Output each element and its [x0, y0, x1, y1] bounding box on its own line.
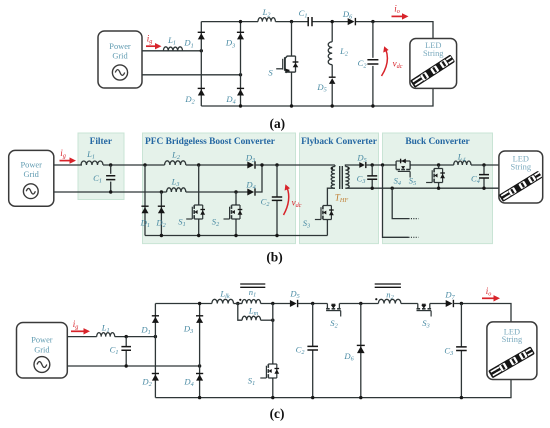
node: S bottom (a) [290, 104, 293, 107]
svg-text:Grid: Grid [24, 170, 40, 179]
MOSFET S2 (b) [235, 192, 237, 205]
node: C2 bottom (b) [275, 234, 278, 237]
diode D2 branch (b) [160, 192, 162, 236]
diode D2 (c) [152, 373, 159, 375]
wire: bottom rail (a) [201, 88, 433, 106]
inductor L2 vertical (a) [328, 42, 332, 65]
wire: grid bottom lead (c) [67, 365, 199, 367]
diode D7 (c) [452, 300, 454, 307]
node: C1 bottom (c) [125, 364, 128, 367]
wire: L3 to D4 (b) [186, 191, 248, 193]
wire: grid top lead (b) [54, 164, 82, 166]
node: C2 top (c) [311, 302, 314, 305]
LED String load (a) [410, 39, 457, 89]
wire: grid top lead to bridge (a) [142, 50, 201, 52]
diode D1 (c) [152, 315, 159, 317]
node: right leg bottom (c) [198, 396, 201, 399]
node: C3 top (b) [371, 163, 374, 166]
wire: D5 to bottom rail (a) [331, 84, 333, 107]
inductor L2 top rail (a) [258, 18, 275, 22]
shaded region: Filter block (b) [78, 133, 124, 200]
transformer n2 core (c) [375, 284, 401, 287]
MOSFET S1 (b) [198, 165, 200, 205]
MOSFET S2 (c) [327, 304, 339, 309]
inductor L2 (b) [165, 161, 186, 165]
node: S5 drain (b) [437, 163, 440, 166]
node: D1 top junction (b) [143, 163, 146, 166]
node: S5 source (b) [437, 187, 440, 190]
capacitor C1 (b) [110, 165, 112, 174]
node: S1 drain junction (b) [197, 163, 200, 166]
diode D2 (a) [198, 87, 205, 89]
wire: D5 to S2 (c) [298, 303, 328, 305]
node: bridge left mid junction (a) [200, 49, 203, 52]
wire: S1 drain branch (c) [272, 304, 274, 365]
transformer polarity dots (b) [331, 167, 333, 169]
wire: bottom rail (c) [155, 380, 511, 398]
LED String load (c) [487, 322, 537, 380]
shaded region: Buck Converter block (b) [383, 133, 493, 244]
node: C4 bottom (b) [482, 187, 485, 190]
switch S IGBT (a) [291, 22, 293, 57]
node: S1 bottom (c) [271, 396, 274, 399]
node: n1 right junction (c) [271, 302, 274, 305]
svg-text:String: String [511, 163, 532, 172]
MOSFET S1 (c) [260, 363, 279, 379]
capacitor C2 (b) [276, 165, 278, 197]
wire: secondary bottom rail (b) [345, 187, 499, 189]
inductor L1 (b) [81, 161, 103, 165]
node: right leg top (c) [198, 302, 201, 305]
MOSFET S5 (b) [438, 165, 440, 169]
diode D3 (a) [237, 31, 244, 33]
LED String load (b) [499, 151, 543, 203]
wire: L2 to D5 (a) [331, 65, 333, 78]
node: C2 top (b) [275, 163, 278, 166]
capacitor C4 (b) [483, 165, 485, 175]
wire: L2 vertical branch (a) [331, 22, 333, 42]
wire: bridge right leg (a) [240, 22, 242, 106]
inductor L3 (b) [167, 188, 186, 192]
wire: bottom rail (b) [145, 235, 327, 237]
node: C2 bottom (a) [371, 104, 374, 107]
diode D4 (b) [254, 188, 256, 195]
inductor L1 (a) [163, 47, 182, 51]
diode D3 (b) [254, 161, 256, 168]
diode D1 branch (b) [144, 165, 146, 236]
capacitor C2 (c) [312, 304, 314, 347]
node: Lm right junction (c) [271, 319, 274, 322]
node: switch S junction (a) [290, 20, 293, 23]
node: right leg bottom (a) [239, 104, 242, 107]
svg-text:String: String [502, 335, 523, 344]
node: bridge right mid junction (c) [198, 364, 201, 367]
wire: grid bottom lead (a) [142, 74, 241, 76]
wire: S3 to D7 (c) [430, 303, 446, 305]
node: C3 bottom (b) [371, 187, 374, 190]
svg-text:S: S [268, 68, 273, 78]
capacitor C3 (c) [460, 304, 462, 347]
diode D4 (c) [196, 373, 203, 375]
node: stub A top (b) [381, 163, 384, 166]
node: D6 top junction (c) [359, 302, 362, 305]
transformer n1 primary coil (c) [234, 303, 243, 305]
wire: top rail bridge to Llk (c) [155, 303, 212, 305]
node: stub B top (b) [391, 187, 394, 190]
diode D5 (b) [365, 162, 367, 168]
wire: D5 to buck top (b) [366, 164, 396, 166]
svg-text:Power: Power [20, 161, 42, 170]
diode D4 (a) [237, 87, 244, 89]
capacitor C3 (b) [371, 165, 373, 176]
voltage arrow v_dc (b) [284, 188, 289, 216]
svg-text:Power: Power [109, 42, 131, 51]
node: S2 source bottom (b) [234, 234, 237, 237]
power grid source (c) [17, 323, 68, 379]
inductor L4 (b) [454, 161, 471, 165]
capacitor C1 (c) [125, 337, 127, 347]
inductor Llk (c) [212, 299, 234, 303]
diode D6 branch (c) [360, 304, 362, 398]
capacitor C1 series (a) [308, 17, 312, 26]
svg-text:Flyback Converter: Flyback Converter [301, 137, 377, 147]
transformer THF core (b) [340, 166, 343, 189]
voltage arrow v_dc (a) [382, 50, 388, 77]
wire: n2 to S3 (c) [401, 303, 418, 305]
node: D5 bottom (a) [331, 104, 334, 107]
wire: S emitter to bottom rail (a) [291, 72, 293, 106]
node: S1 source bottom (b) [197, 234, 200, 237]
node: L2 branch top (a) [331, 20, 334, 23]
wire: bridge left leg (a) [200, 22, 202, 106]
node: C2 bottom (c) [311, 396, 314, 399]
diode D6 (a) [354, 18, 356, 25]
shaded region: PFC Bridgeless Boost Converter block (b) [143, 133, 296, 244]
node: C1 top (b) [109, 163, 112, 166]
transformer THF primary coil (b) [334, 165, 336, 167]
node: D3/D4 join (b) [260, 163, 263, 166]
node: S2 drain junction (b) [234, 190, 237, 193]
node: D6 bottom (c) [359, 396, 362, 399]
transformer n1 core (c) [240, 284, 265, 287]
svg-text:(b): (b) [266, 250, 282, 265]
svg-text:(a): (a) [269, 116, 285, 131]
node: bridge left mid junction (c) [154, 335, 157, 338]
inductor L1 (c) [97, 333, 115, 337]
wire: D4 riser to top rail (b) [255, 165, 262, 192]
inductor Lm branch (c) [238, 304, 242, 321]
node: Llk / n1 / Lm junction (c) [236, 302, 239, 305]
MOSFET S3 (b) [315, 205, 334, 221]
capacitor C2 (a) [372, 22, 374, 58]
wire: L2 to D3 (b) [186, 164, 248, 166]
wire: D7 to LED (c) [453, 304, 511, 322]
wire: bridge right leg (c) [199, 304, 201, 398]
wire: primary bottom to S3 (b) [327, 188, 335, 205]
node: bridge right mid junction (a) [239, 73, 242, 76]
wire: top rail PFC output to flyback (b) [255, 164, 335, 166]
wire: grid bottom lead (b) [54, 191, 167, 193]
diode D3 (c) [196, 315, 203, 317]
diode D5 (a) [329, 76, 336, 78]
wire: top rail (a) [201, 21, 258, 23]
svg-text:Filter: Filter [90, 137, 112, 147]
node: C3 bottom (c) [460, 396, 463, 399]
diode D1 (a) [198, 31, 205, 33]
power grid source (b) [9, 150, 54, 206]
node: right leg top (a) [239, 20, 242, 23]
wire: S2 to n2 (c) [339, 303, 378, 305]
MOSFET S4 (b) [395, 159, 411, 178]
node: C1 bottom (b) [109, 190, 112, 193]
wire: bridge left leg (c) [154, 304, 156, 398]
wire: L4 to LED (b) [471, 164, 499, 166]
svg-text:String: String [423, 49, 444, 58]
svg-text:PFC Bridgeless Boost Converter: PFC Bridgeless Boost Converter [145, 137, 275, 147]
node: D2 top junction (b) [160, 190, 163, 193]
transformer n2 coil (c) [378, 299, 401, 303]
svg-text:Buck Converter: Buck Converter [405, 137, 469, 147]
shaded region: Flyback Converter block (b) [300, 133, 379, 244]
wire: L1 to PFC top line (b) [103, 164, 165, 166]
transformer THF secondary coil (b) [345, 167, 349, 189]
node: D2 bottom (b) [160, 234, 163, 237]
node: C1 top (c) [125, 335, 128, 338]
node: C3 top (c) [460, 302, 463, 305]
MOSFET S3 (c) [418, 304, 430, 309]
diode D5 (c) [297, 300, 299, 307]
power grid source (a) [98, 31, 142, 88]
stub B wire with dashes (b) [392, 188, 408, 218]
wire: L1 to bridge (c) [115, 336, 156, 338]
svg-text:Power: Power [31, 336, 53, 345]
stub A wire with dashes (b) [383, 165, 409, 237]
wire: S4 to S5 junction (b) [411, 164, 454, 166]
transformer n2 polarity dot (c) [375, 298, 377, 300]
node: C2 junction top (a) [371, 20, 374, 23]
wire: grid top lead (c) [67, 336, 96, 338]
node: C4 top (b) [482, 163, 485, 166]
svg-text:Grid: Grid [112, 52, 128, 61]
svg-text:Grid: Grid [34, 346, 50, 355]
svg-text:(c): (c) [270, 406, 285, 421]
transformer n1 polarity dot (c) [239, 299, 241, 301]
